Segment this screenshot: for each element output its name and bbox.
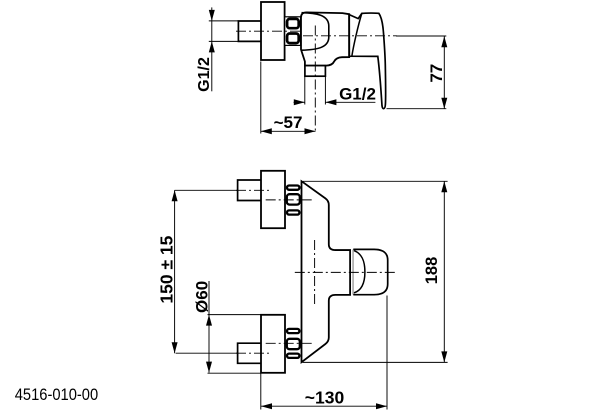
dim Ø60: arrows xyxy=(206,315,212,373)
front view: knob axis centerline xyxy=(295,271,396,273)
svg-text:188: 188 xyxy=(423,257,441,285)
side view: handle hub boundary line xyxy=(352,13,362,56)
side view: body/cartridge axis centerline xyxy=(303,35,397,37)
dim mid G1/2: arrows xyxy=(294,99,337,105)
svg-text:4516-010-00: 4516-010-00 xyxy=(15,385,99,404)
svg-text:Ø60: Ø60 xyxy=(192,281,211,313)
dim 150±15: arrows xyxy=(172,190,178,353)
front view: bottom wall pipe xyxy=(238,343,261,363)
dim 188: arrows xyxy=(441,181,447,362)
dim ~130: arrows xyxy=(261,403,387,409)
dim ~57: arrows xyxy=(261,128,316,134)
side view: union nut xyxy=(285,17,301,46)
front view: bottom union nut xyxy=(287,329,300,358)
dim 77: arrows xyxy=(441,36,447,108)
dim ~57: extension line xyxy=(261,62,316,134)
svg-text:G1/2: G1/2 xyxy=(196,57,213,92)
dim ~130: extension lines xyxy=(261,296,387,410)
svg-text:~57: ~57 xyxy=(274,113,303,132)
side view: wall pipe nipple xyxy=(238,21,261,41)
side view: mixer body outline xyxy=(301,12,349,65)
svg-text:~130: ~130 xyxy=(305,388,345,408)
dim 77: extension lines xyxy=(387,36,447,109)
side view: inlet axis centerline xyxy=(236,30,302,32)
front view: top nut axis centerline xyxy=(266,199,313,201)
dim left G1/2: extension lines xyxy=(209,7,239,91)
side view: cartridge dome inner line xyxy=(302,13,329,51)
svg-text:G1/2: G1/2 xyxy=(339,84,376,103)
dim 188: extension lines xyxy=(303,181,448,362)
front view: bottom nut axis centerline xyxy=(266,342,313,344)
side view: handle lever xyxy=(349,13,385,109)
front view: bottom flange xyxy=(261,315,285,373)
front view: top flange xyxy=(261,171,285,228)
front view: top union nut xyxy=(287,186,300,215)
front view: knob body xyxy=(353,249,387,294)
side view: body/handle joint line xyxy=(348,14,350,56)
front view: bottom pipe axis centerline xyxy=(176,352,272,354)
front view: top wall pipe xyxy=(238,180,261,201)
dim mid G1/2: extension lines xyxy=(294,77,376,105)
dim left G1/2: arrows xyxy=(209,10,215,53)
front view: top pipe axis centerline xyxy=(175,189,272,191)
svg-text:150 ± 15: 150 ± 15 xyxy=(156,235,176,303)
front view: knob face arc xyxy=(354,251,365,293)
dim 150±15: dimension line xyxy=(174,190,176,353)
front view: mixer body outline xyxy=(302,181,351,362)
svg-text:77: 77 xyxy=(427,64,446,83)
side view: shower outlet stub xyxy=(305,66,326,77)
front view: knob vertical centerline xyxy=(314,240,316,305)
side view: wall flange (escutcheon) xyxy=(261,2,285,60)
front view: knob base ring xyxy=(353,250,355,295)
dim Ø60: extension lines xyxy=(208,281,262,373)
side view: outlet vertical centerline xyxy=(314,26,316,134)
